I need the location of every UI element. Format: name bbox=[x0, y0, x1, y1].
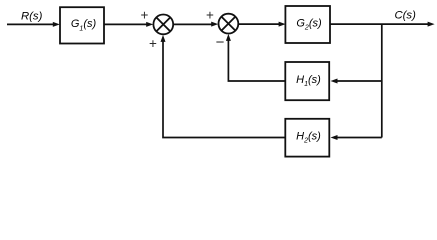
svg-text:R(s): R(s) bbox=[21, 10, 43, 22]
svg-text:+: + bbox=[140, 8, 148, 23]
svg-text:+: + bbox=[149, 36, 157, 51]
svg-text:+: + bbox=[206, 8, 214, 23]
svg-text:C(s): C(s) bbox=[395, 9, 417, 21]
svg-text:−: − bbox=[216, 34, 225, 51]
